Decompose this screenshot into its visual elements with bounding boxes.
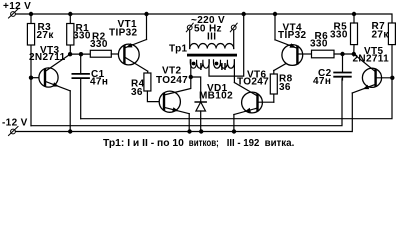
wire VD1 link (191, 77, 201, 102)
wire right collector node (334, 53, 354, 55)
wire R3 column and VT3 base drop (30, 14, 32, 126)
node VT3 base (29, 76, 33, 80)
wire cross-coupling A (VT3 base to C2) (31, 79, 342, 126)
winding I (190, 60, 209, 68)
transistor VT4 (275, 40, 312, 66)
wire R2 to VT1 base (111, 53, 124, 55)
svg-text:II: II (221, 62, 227, 73)
svg-text:2N2711: 2N2711 (29, 52, 66, 63)
+12V terminal (9, 9, 19, 18)
wire VT2 emitter to rail (188, 114, 190, 132)
wire winding III right lead to terminal (233, 30, 235, 49)
svg-text:47н: 47н (313, 76, 331, 87)
node rail VT1 emitter (144, 12, 148, 16)
node rail R5 (352, 12, 356, 16)
terminal output left (187, 25, 192, 30)
phase dot winding II (215, 62, 219, 66)
transistor VT3 (39, 54, 70, 91)
node right collector R5 (352, 52, 356, 56)
node right collector C2 (340, 52, 344, 56)
node rail VT3 emitter (68, 129, 72, 133)
svg-text:TIP32: TIP32 (109, 28, 138, 39)
svg-text:Тр1: I и II - по 10: Тр1: I и II - по 10 (103, 138, 184, 149)
svg-text:TIP32: TIP32 (278, 30, 307, 41)
resistor R6 (312, 50, 335, 58)
node rail VT4 emitter (273, 12, 277, 16)
transistor VT6 (234, 83, 274, 115)
wire R1 column (69, 14, 71, 54)
core (187, 54, 237, 57)
winding II (214, 60, 235, 68)
wire winding II right end down (233, 60, 235, 83)
svg-text:I: I (200, 62, 203, 73)
wire VT3 base (31, 77, 45, 79)
wire left collector node (70, 53, 90, 55)
node VT5 base (390, 76, 394, 80)
node rail R1 (68, 12, 72, 16)
resistor R7 (388, 23, 395, 45)
wire top +12V rail (16, 14, 393, 23)
wire VT1 emitter to rail (146, 14, 148, 40)
wire VT1 collector to R4 (147, 71, 149, 73)
svg-text:27к: 27к (372, 30, 390, 41)
svg-text:2N2711: 2N2711 (353, 54, 390, 65)
transistor VT2 (159, 77, 191, 114)
wire R5 leads (353, 14, 355, 23)
svg-text:III - 192: III - 192 (227, 138, 260, 149)
node rail VT6 emitter (232, 129, 236, 133)
node VT2 collector (189, 75, 193, 79)
transistor VT5 (352, 54, 392, 93)
node left collector R1 (68, 52, 72, 56)
resistor R3 (27, 24, 34, 46)
wire cross-coupling B (C1 to VT5 base) (81, 78, 392, 119)
node rail center tap (242, 12, 246, 16)
terminal output right (231, 25, 236, 30)
node rail VT2 emitter (187, 129, 191, 133)
svg-text:47н: 47н (90, 77, 108, 88)
wire R8 bottom lead (273, 94, 275, 102)
svg-text:-12 V: -12 V (2, 118, 28, 129)
svg-text:36: 36 (279, 82, 291, 93)
winding III (190, 44, 234, 49)
capacitor C1 (72, 54, 89, 119)
svg-text:III: III (207, 32, 216, 43)
wire R8 top to VT4 collector (273, 71, 275, 75)
resistor R8 (270, 74, 277, 94)
svg-text:330: 330 (310, 39, 328, 50)
node rail VD1 (199, 129, 203, 133)
svg-text:ТО247: ТО247 (156, 75, 188, 86)
svg-text:36: 36 (131, 87, 143, 98)
resistor R1 (67, 24, 74, 46)
diode VD1 (195, 102, 206, 132)
phase dot winding I (192, 62, 196, 66)
resistor R4 (144, 73, 151, 91)
transistor VT1 (118, 40, 147, 72)
svg-text:витков;: витков; (189, 138, 219, 149)
wire VT4 emitter to rail (274, 14, 276, 40)
node rail R3 (29, 12, 33, 16)
wire VT5 emitter to rail (351, 93, 353, 132)
svg-text:ТО247: ТО247 (237, 77, 269, 88)
transformer Tp1 (186, 14, 243, 83)
svg-text:330: 330 (90, 39, 108, 50)
resistor R2 (90, 50, 111, 57)
svg-text:MB102: MB102 (199, 91, 233, 102)
capacitor C2 (334, 54, 351, 80)
-12V terminal (9, 127, 19, 136)
wire VT3 emitter to rail (69, 91, 71, 132)
svg-text:330: 330 (73, 31, 91, 42)
svg-text:витка.: витка. (265, 138, 295, 149)
wire VT2 collector node to winding I (190, 60, 192, 77)
svg-text:330: 330 (330, 30, 348, 41)
wire bottom -12V rail (16, 131, 353, 133)
node left collector C1 (79, 52, 83, 56)
wire VT6 emitter to rail (233, 115, 235, 132)
svg-text:+12 V: +12 V (3, 1, 31, 12)
svg-text:27к: 27к (37, 30, 55, 41)
wire R4 to VT2 base (147, 91, 164, 102)
svg-text:Тр1: Тр1 (169, 44, 188, 55)
wire center tap to +12 rail (209, 14, 244, 76)
wire winding III left lead to terminal (189, 30, 191, 49)
resistor R5 (351, 23, 358, 45)
wire R7 bottom to VT5 base node (391, 45, 393, 78)
